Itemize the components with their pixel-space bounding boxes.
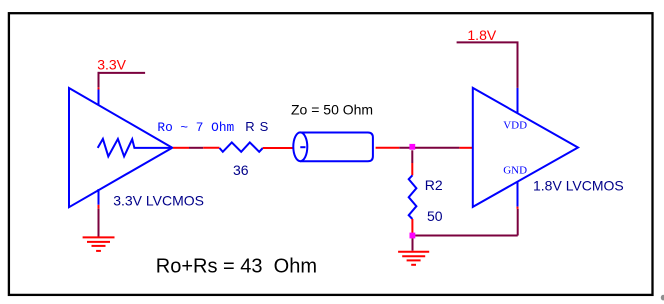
wire 1.8V supply [517, 42, 519, 88]
svg-text:Ro+Rs = 43 Ohm: Ro+Rs = 43 Ohm [156, 255, 317, 277]
svg-text:1.8V: 1.8V [467, 27, 496, 43]
node junction bottom [410, 233, 416, 239]
svg-text:3.3V LVCMOS: 3.3V LVCMOS [113, 192, 204, 208]
resistor R2 [409, 175, 417, 219]
power symbol 1.8V bar [457, 41, 519, 43]
scrollbar arrow bottom-right [661, 295, 664, 301]
wire U1 to ground [98, 209, 100, 237]
svg-text:3.3V: 3.3V [97, 56, 126, 72]
ground (right) [398, 252, 429, 265]
pin U2 VDD [517, 88, 519, 114]
wire 3.3V supply [98, 72, 100, 87]
wire RS to T1 [263, 147, 294, 149]
svg-text:GND: GND [503, 165, 527, 177]
svg-text:50: 50 [427, 208, 443, 224]
op-amp U1 driver 3.3V LVCMOS [69, 88, 172, 207]
svg-text:Ro ~ 7 Ohm: Ro ~ 7 Ohm [157, 120, 234, 135]
svg-text:R2: R2 [425, 177, 443, 193]
wire U1 output [173, 147, 189, 149]
svg-text:36: 36 [233, 162, 249, 178]
svg-text:RS: RS [245, 119, 273, 134]
node junction top [409, 144, 415, 150]
svg-text:Zo = 50 Ohm: Zo = 50 Ohm [291, 102, 373, 118]
wire T1 to node [376, 147, 400, 149]
ground (left) [83, 237, 115, 251]
wire node to R2 [411, 150, 413, 163]
pin U2 input [459, 147, 473, 149]
wire R2 to ground node [411, 219, 413, 233]
svg-text:VDD: VDD [503, 120, 527, 132]
wire bottom node to ground [412, 238, 414, 250]
power symbol 3.3V bar [98, 72, 146, 74]
pin U1 ground [98, 189, 100, 205]
op-amp U2 receiver 1.8V LVCMOS [473, 88, 578, 207]
transmission line T1 [293, 132, 373, 161]
resistor RS [220, 142, 263, 151]
pin U1 power [98, 90, 100, 106]
pin U2 GND [517, 181, 519, 206]
wire bottom node to U2 GND [415, 235, 517, 237]
svg-text:1.8V LVCMOS: 1.8V LVCMOS [533, 178, 624, 194]
